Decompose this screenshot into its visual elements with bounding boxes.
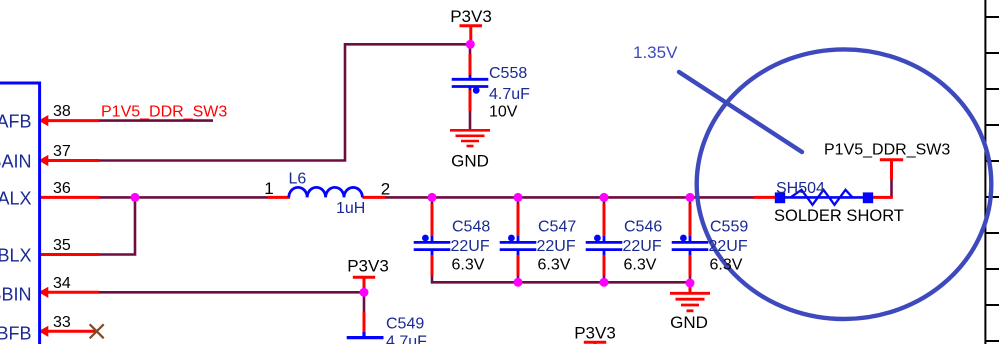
svg-text:GND: GND: [670, 313, 708, 332]
svg-text:ALX: ALX: [0, 188, 32, 208]
svg-text:6.3V: 6.3V: [538, 257, 571, 274]
svg-text:22UF: 22UF: [623, 238, 662, 255]
pin name AFB: [0, 112, 32, 344]
pin 33 arrow: [39, 326, 49, 337]
pin 38 stub: [41, 54, 893, 333]
wire pin36 left segment: [98, 196, 268, 199]
ground GND1 bars: [450, 130, 490, 146]
wire pin34 to P3V3 node: [98, 291, 364, 294]
power symbol P3V3 mid bar: [353, 276, 375, 279]
inductor L6: [289, 187, 363, 197]
svg-text:L6: L6: [289, 170, 307, 187]
IC U? box edge: [0, 83, 40, 344]
svg-text:4.7uF: 4.7uF: [386, 334, 427, 344]
svg-text:6.3V: 6.3V: [452, 257, 485, 274]
wire caps bottom rail: [432, 275, 690, 282]
svg-text:22UF: 22UF: [537, 238, 576, 255]
svg-text:1: 1: [264, 179, 273, 198]
pin 37 stub: [41, 159, 99, 162]
C548 pin stubs: [431, 204, 434, 237]
C546 pin stubs: [603, 204, 606, 237]
C547 pin stubs: [517, 204, 520, 237]
L6 pin1 stub: [268, 196, 290, 199]
svg-text:4.7uF: 4.7uF: [489, 86, 530, 103]
junction node C546 bottom: [600, 278, 609, 287]
svg-text:P1V5_DDR_SW3: P1V5_DDR_SW3: [101, 104, 227, 121]
capacitor C548 symbol: [414, 235, 451, 255]
annotation circle: [697, 49, 992, 319]
wire C547 top tail: [517, 197, 520, 203]
wire pin37 to P3V3: [98, 44, 470, 160]
svg-text:36: 36: [53, 180, 71, 197]
capacitor C559 symbol: [672, 235, 709, 255]
C549 pin stub: [363, 312, 366, 333]
junction node P3V3 top: [466, 40, 475, 49]
junction node C559 top: [686, 193, 695, 202]
connector table right edge: [985, 0, 999, 344]
pin 35 stub: [41, 253, 99, 256]
no-connect X pin33: [90, 324, 104, 338]
svg-text:SH504: SH504: [776, 180, 825, 197]
wire main rail L6 to SH504: [385, 196, 754, 199]
svg-text:BLX: BLX: [0, 246, 32, 266]
svg-text:C548: C548: [452, 219, 490, 236]
svg-text:BAIN: BAIN: [0, 152, 32, 172]
pin 38 arrow: [39, 115, 49, 337]
ground GND2 bars: [670, 293, 710, 311]
wire C558 top: [469, 44, 472, 54]
svg-text:35: 35: [53, 237, 71, 254]
svg-text:P1V5_DDR_SW3: P1V5_DDR_SW3: [824, 142, 950, 159]
svg-text:2: 2: [381, 179, 390, 198]
wire node to C549: [363, 292, 366, 312]
junction node GND2: [686, 279, 695, 288]
GND2 stub: [689, 283, 692, 293]
svg-text:6.3V: 6.3V: [624, 257, 657, 274]
svg-text:1.35V: 1.35V: [633, 43, 678, 62]
svg-text:BBIN: BBIN: [0, 284, 32, 304]
SH504 right stub: [872, 196, 893, 199]
svg-text:P3V3: P3V3: [347, 257, 389, 276]
wire C559 bottom tail: [689, 276, 692, 284]
wire SH504 right riser: [890, 179, 893, 197]
power symbol P3V3 bottom bar: [584, 341, 606, 344]
svg-text:38: 38: [53, 103, 71, 120]
junction node C548 top: [428, 193, 437, 202]
pin 34 arrow: [39, 287, 49, 298]
svg-text:22UF: 22UF: [451, 238, 490, 255]
wire C547 bottom tail: [517, 275, 520, 282]
P1V5 power stub: [890, 161, 893, 180]
SH504 left stub: [754, 196, 776, 199]
power symbol P3V3 top bar: [460, 24, 483, 27]
svg-text:33: 33: [53, 314, 71, 331]
label C548: [386, 65, 748, 344]
wire pin35 up to node: [98, 197, 135, 254]
svg-text:22UF: 22UF: [709, 238, 748, 255]
wire C548 top tail: [431, 197, 434, 203]
svg-text:P3V3: P3V3: [574, 323, 616, 342]
svg-text:10V: 10V: [489, 103, 518, 120]
pin number 38: [53, 103, 71, 331]
svg-text:37: 37: [53, 143, 71, 160]
junction node P3V3 mid: [360, 288, 369, 297]
svg-text:GND: GND: [451, 152, 489, 171]
capacitor C558 symbol: [452, 75, 489, 94]
capacitor C547 symbol: [500, 235, 537, 255]
wire C559 top tail: [689, 197, 692, 203]
svg-text:6.3V: 6.3V: [710, 257, 743, 274]
wire C546 top tail: [603, 197, 606, 203]
svg-text:C549: C549: [386, 316, 424, 333]
junction node C546 top: [600, 193, 609, 202]
svg-text:C558: C558: [489, 65, 527, 82]
svg-text:1uH: 1uH: [336, 200, 365, 217]
svg-text:C559: C559: [710, 219, 748, 236]
solder short SH504 symbol: [775, 190, 873, 205]
L6 pin2 stub: [362, 196, 385, 199]
wire C558 bottom to GND: [469, 111, 472, 131]
capacitor C546 symbol: [586, 235, 623, 255]
pin 36 stub: [41, 196, 99, 199]
C559 pin stubs: [689, 204, 692, 237]
wire pin38 net stub: [98, 44, 892, 312]
svg-text:C547: C547: [538, 219, 576, 236]
annotation pointer line: [679, 72, 802, 152]
junction node C547 bottom: [514, 278, 523, 287]
C558 pin stubs: [469, 54, 472, 76]
capacitor C549 symbol: [347, 332, 384, 338]
pin 37 arrow: [39, 155, 49, 166]
svg-text:34: 34: [53, 275, 71, 292]
wire C546 bottom tail: [603, 275, 606, 282]
svg-text:SOLDER SHORT: SOLDER SHORT: [774, 207, 904, 225]
junction node pin36/35: [131, 40, 695, 297]
svg-text:P3V3: P3V3: [450, 7, 492, 26]
pin 33 stub: [41, 330, 98, 333]
svg-text:BFB: BFB: [0, 323, 32, 343]
pin 34 stub: [41, 291, 99, 294]
power symbol P1V5_DDR_SW3 bar: [880, 158, 903, 161]
junction node C547 top: [514, 193, 523, 202]
svg-text:C546: C546: [624, 219, 662, 236]
svg-text:AFB: AFB: [0, 112, 32, 132]
